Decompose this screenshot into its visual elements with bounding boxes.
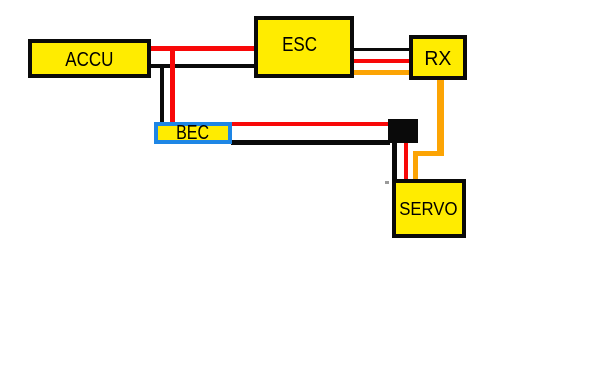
wire orange ESC to RX <box>354 70 410 76</box>
wire black vertical to BEC <box>160 65 165 123</box>
wire orange vertical to SERVO <box>413 151 419 180</box>
wire black BEC to connector <box>231 140 390 145</box>
wire red vertical to BEC <box>170 49 175 123</box>
box RX <box>409 35 467 80</box>
wire orange horizontal jog <box>413 151 443 156</box>
box BEC <box>154 122 232 144</box>
box ACCU <box>28 39 151 78</box>
wire black vertical connector to SERVO <box>392 142 397 180</box>
speck gray <box>385 181 389 184</box>
box SERVO <box>392 179 466 238</box>
wire red BEC to connector <box>230 122 390 126</box>
box ESC <box>254 16 354 78</box>
wire red ACCU to ESC <box>147 46 255 51</box>
wire orange vertical below RX <box>437 79 444 156</box>
wire red vertical connector to SERVO <box>404 142 409 180</box>
wire black ESC to RX <box>354 48 410 51</box>
connector black block <box>388 119 418 143</box>
wire red ESC to RX <box>354 59 410 63</box>
wire black ACCU to ESC <box>150 64 255 68</box>
